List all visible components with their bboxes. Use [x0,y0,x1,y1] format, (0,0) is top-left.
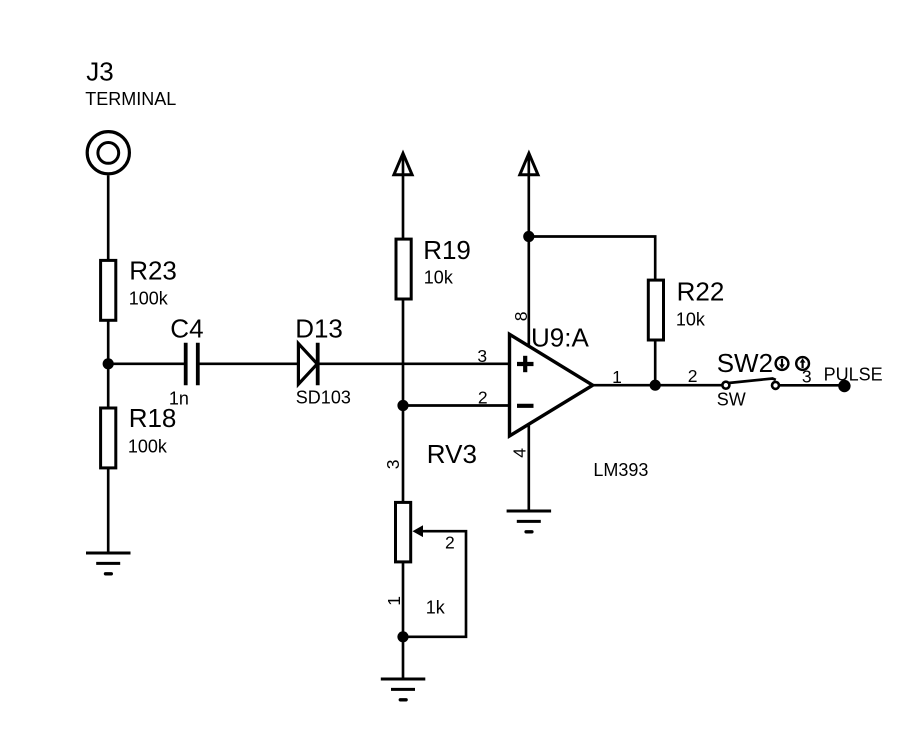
svg-text:SD103: SD103 [296,388,351,408]
svg-text:SW: SW [717,390,746,410]
resistor R19 [396,239,411,299]
potentiometer RV3 [396,502,424,562]
svg-text:RV3: RV3 [427,439,477,469]
svg-text:2: 2 [445,532,455,552]
capacitor C4 [186,343,198,386]
svg-text:100k: 100k [128,437,168,457]
ground (op-amp pin 4) [507,511,551,532]
wire node to C4 [108,362,184,365]
svg-text:10k: 10k [676,310,706,330]
wire R23 to R18 [107,320,110,408]
wire op-amp pin 4 to ground [527,423,530,511]
svg-text:10k: 10k [424,268,454,288]
wire switch to PULSE [780,384,845,387]
svg-text:TERMINAL: TERMINAL [85,89,176,109]
svg-text:3: 3 [383,460,403,470]
power arrow (U9 supply) [520,153,538,175]
svg-text:D13: D13 [295,313,343,343]
wire R19 to RV3 (crosses main wire) [402,299,405,502]
junction node (pin 2 tap) [397,400,408,411]
svg-text:SW2: SW2 [717,348,773,378]
wire R18 to ground [107,468,110,553]
diode D13 [298,343,317,386]
resistor R23 [101,260,116,320]
svg-text:2: 2 [478,388,488,408]
wire power to op-amp pin 8 [527,156,530,347]
svg-text:1: 1 [384,596,404,606]
wire RV3 bottom to ground [402,562,405,679]
svg-text:PULSE: PULSE [824,364,883,384]
op-amp U9:A [510,334,593,436]
junction node (RV3 bottom) [397,631,408,642]
ground (below RV3) [381,679,426,700]
resistor R22 [648,280,663,340]
junction node (supply/R22 tap) [523,231,534,242]
wire op-amp output to switch [593,384,722,387]
svg-text:U9:A: U9:A [531,323,589,353]
svg-text:1n: 1n [169,389,189,409]
svg-text:4: 4 [510,448,530,458]
wire supply tap to R22 [529,237,655,282]
switch actuator down [776,357,789,370]
junction node (R23/R18/C4) [103,358,114,369]
wire D13 to op-amp pin 3 [318,362,510,365]
junction node (output/R22) [650,380,661,391]
connector J3 [87,132,129,174]
power arrow (R19 supply) [394,153,412,175]
wire RV3 wiper loop [403,531,466,637]
svg-text:R23: R23 [129,256,177,286]
svg-text:3: 3 [477,346,487,366]
wire R22 to output node [654,339,657,385]
wire C4 to D13 [200,362,298,365]
svg-text:LM393: LM393 [593,460,648,480]
svg-text:8: 8 [511,311,531,321]
switch SW2 [722,379,779,389]
wire to op-amp pin 2 [403,404,510,407]
ground (below R18) [86,553,131,574]
resistor R18 [101,408,116,468]
svg-text:1k: 1k [426,598,446,618]
svg-text:C4: C4 [170,313,203,343]
svg-text:R22: R22 [677,277,725,307]
svg-text:2: 2 [688,366,698,386]
svg-text:100k: 100k [129,289,169,309]
svg-text:R19: R19 [423,235,471,265]
node PULSE [838,380,850,392]
wire power to R19 [402,156,405,241]
wire J3 to R23 [107,175,110,262]
svg-text:J3: J3 [86,56,113,86]
switch actuator up [796,357,809,370]
